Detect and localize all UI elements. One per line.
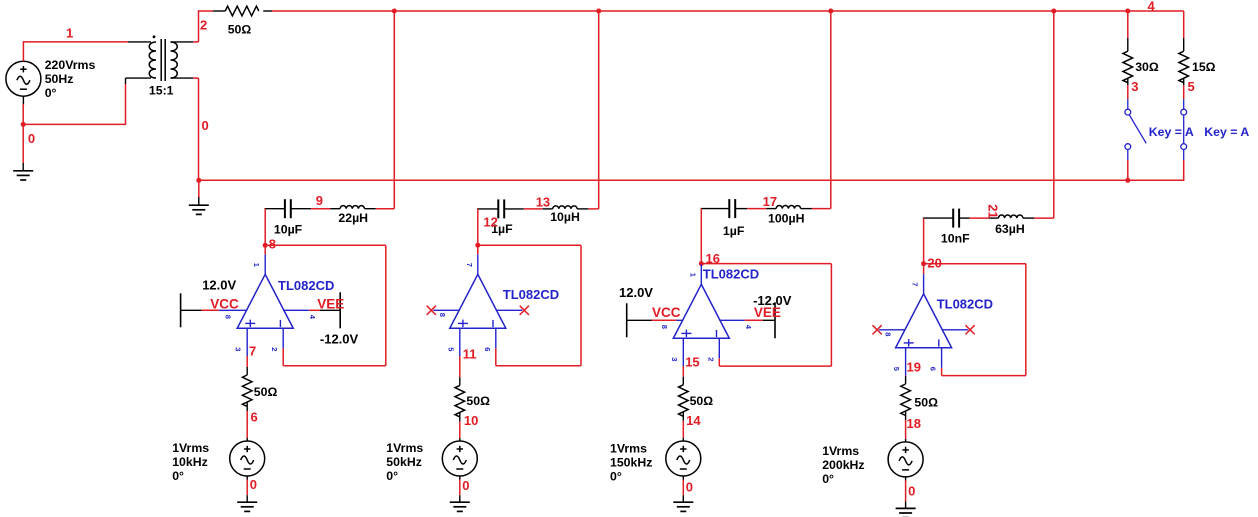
wire top to inductor branch 3: [830, 11, 832, 209]
svg-text:2: 2: [706, 357, 715, 361]
wire input pin to resistor branch 2: [459, 356, 461, 377]
pin 6 inverting input U4: [941, 348, 943, 368]
resistor R1 50Ω horizontal: [225, 6, 259, 16]
AC source 1Vrms branch 4: [888, 442, 923, 477]
power rail VCC (U1): [180, 293, 182, 327]
svg-text:0: 0: [686, 480, 693, 495]
wire ground bus: [199, 179, 1184, 181]
wire input pin to resistor branch 1: [246, 356, 248, 367]
resistor R3 15Ω vertical: [1179, 51, 1189, 82]
op-amp U3 TL082CD: [673, 284, 729, 338]
svg-text:1Vrms: 1Vrms: [610, 442, 647, 456]
junction top at branch 2: [596, 9, 601, 14]
junction top at 30Ω branch: [1125, 9, 1130, 14]
resistor 50Ω branch 1: [242, 375, 252, 407]
power pin VCC- unconnected U2: [496, 309, 523, 311]
wire cap row branch 3: [701, 208, 730, 210]
pin 7 output U2: [477, 254, 479, 274]
svg-text:8: 8: [660, 325, 669, 329]
svg-text:7: 7: [249, 344, 256, 359]
svg-text:7: 7: [911, 282, 920, 286]
inductor L4 63µH: [999, 215, 1023, 218]
svg-text:10: 10: [464, 413, 478, 428]
svg-text:0°: 0°: [610, 470, 622, 484]
capacitor C4 10nF: [952, 209, 954, 228]
resistor 50Ω branch 3: [679, 385, 689, 417]
svg-text:8: 8: [224, 315, 233, 319]
wire top to inductor branch 1: [393, 11, 395, 209]
svg-text:50Ω: 50Ω: [690, 394, 714, 408]
svg-text:0: 0: [908, 484, 915, 499]
pin 5 non-inverting input U2: [459, 328, 461, 356]
transformer T1 phase dot: [153, 35, 156, 38]
power rail VCC (U3): [626, 303, 628, 337]
svg-text:63µH: 63µH: [995, 222, 1025, 236]
junction node 0 left: [21, 122, 26, 127]
pin 7 output U4: [923, 274, 925, 294]
svg-text:0: 0: [202, 118, 209, 133]
svg-text:12: 12: [483, 214, 497, 229]
op-amp U4 TL082CD: [896, 294, 952, 348]
resistor 50Ω branch 2: [455, 385, 465, 417]
pin 3 non-inverting input U1: [246, 328, 248, 356]
pin 6 inverting input U2: [495, 328, 497, 348]
pin 3 non-inverting input U3: [682, 338, 684, 366]
svg-text:50Hz: 50Hz: [45, 72, 74, 86]
svg-text:2: 2: [270, 347, 279, 351]
switch S1 (open) Key = A: [1125, 109, 1131, 115]
AC source 1Vrms branch 1: [230, 441, 265, 476]
svg-text:5: 5: [892, 367, 901, 371]
svg-text:19: 19: [907, 360, 921, 375]
svg-text:12.0V: 12.0V: [202, 277, 236, 292]
AC source 1Vrms branch 2: [442, 441, 477, 476]
wire resistor to source branch 1: [246, 402, 248, 411]
wire source to ground branch 1: [246, 476, 248, 480]
wire resistor to source branch 2: [459, 412, 461, 421]
svg-text:50kHz: 50kHz: [386, 455, 422, 469]
wire R3 to switch S2: [1183, 78, 1185, 85]
junction bus at 30Ω branch: [1125, 178, 1130, 183]
svg-text:9: 9: [316, 193, 323, 208]
svg-text:4: 4: [744, 325, 753, 330]
svg-text:8: 8: [438, 313, 447, 317]
junction top at branch 4: [1051, 9, 1056, 14]
svg-text:220Vrms: 220Vrms: [45, 58, 96, 72]
ground (transformer): [189, 205, 209, 214]
svg-text:50Ω: 50Ω: [228, 23, 252, 37]
switch S2 (closed) Key = A: [1181, 109, 1187, 115]
wire S2 to ground bus: [1183, 150, 1185, 161]
wire cap row branch 2: [477, 208, 498, 210]
svg-text:VCC: VCC: [210, 297, 239, 312]
svg-text:15: 15: [685, 355, 699, 370]
svg-text:15Ω: 15Ω: [1192, 60, 1216, 74]
svg-text:-12.0V: -12.0V: [320, 332, 359, 347]
wire source to ground branch 2: [459, 476, 461, 480]
transformer T1 primary winding: [149, 42, 156, 78]
svg-text:10kHz: 10kHz: [172, 455, 208, 469]
svg-text:-12.0V: -12.0V: [753, 293, 792, 308]
wire resistor to source branch 4: [905, 411, 907, 420]
AC source 1Vrms branch 3: [666, 441, 701, 476]
wire cap to node 20: [923, 218, 925, 264]
pin 5 non-inverting input U4: [905, 348, 907, 376]
svg-text:6: 6: [929, 367, 938, 371]
wire input pin to resistor branch 3: [682, 366, 684, 377]
power pin VCC- unconnected U4: [942, 329, 969, 331]
junction node 16: [699, 261, 704, 266]
svg-text:200kHz: 200kHz: [822, 458, 864, 472]
wire input pin to resistor branch 4: [905, 375, 907, 378]
junction node 12: [475, 243, 480, 248]
wire secondary bottom to ground bus: [171, 77, 194, 79]
wire feedback loop op-amp 3: [701, 263, 831, 265]
pin 1 output U1: [264, 254, 266, 274]
wire feedback loop op-amp 2: [478, 244, 581, 246]
svg-text:11: 11: [463, 347, 477, 362]
wire cap to node 8: [264, 209, 266, 246]
svg-text:3: 3: [1131, 79, 1138, 94]
svg-text:12.0V: 12.0V: [619, 285, 653, 300]
ground (left source): [13, 171, 33, 180]
svg-text:50Ω: 50Ω: [914, 396, 938, 410]
svg-text:0°: 0°: [45, 86, 57, 100]
svg-text:1Vrms: 1Vrms: [822, 444, 859, 458]
svg-text:3: 3: [670, 357, 679, 361]
AC source V1 220Vrms 50Hz: [6, 61, 41, 96]
wire cap row branch 4: [923, 217, 953, 219]
svg-text:15:1: 15:1: [149, 84, 174, 98]
wire junction to ground: [198, 180, 200, 197]
svg-text:13: 13: [536, 195, 550, 210]
svg-text:5: 5: [1188, 79, 1195, 94]
svg-text:0: 0: [462, 478, 469, 493]
svg-text:1Vrms: 1Vrms: [386, 441, 423, 455]
svg-text:TL082CD: TL082CD: [937, 296, 993, 311]
wire resistor to source branch 3: [682, 412, 684, 421]
junction node 20: [921, 261, 926, 266]
svg-text:0: 0: [250, 477, 257, 492]
transformer T1 core: [160, 39, 162, 81]
wire cap to node 16: [700, 209, 702, 264]
pin 1 output U3: [700, 264, 702, 284]
svg-text:50Ω: 50Ω: [254, 385, 278, 399]
svg-text:14: 14: [686, 413, 701, 428]
ground branch 4: [896, 508, 916, 517]
svg-text:1: 1: [252, 263, 261, 267]
svg-text:TL082CD: TL082CD: [503, 287, 559, 302]
svg-text:50Ω: 50Ω: [466, 394, 490, 408]
svg-text:Key = A: Key = A: [1149, 125, 1194, 139]
svg-text:5: 5: [446, 347, 455, 351]
inductor L1 22µH: [340, 206, 364, 209]
wire junction to transformer primary bottom: [23, 123, 125, 125]
svg-text:0°: 0°: [172, 469, 184, 483]
ground branch 3: [673, 502, 693, 511]
svg-text:TL082CD: TL082CD: [278, 278, 334, 293]
svg-text:18: 18: [907, 416, 921, 431]
svg-text:17: 17: [763, 194, 777, 209]
power rail VEE (U1): [339, 292, 341, 328]
wire R2 to switch S1: [1127, 78, 1129, 85]
wire feedback loop op-amp 1: [265, 244, 386, 246]
ground branch 2: [450, 502, 470, 511]
svg-text:30Ω: 30Ω: [1135, 60, 1159, 74]
junction top at branch 1: [392, 9, 397, 14]
inductor L2 10µH: [553, 206, 577, 209]
svg-text:VCC: VCC: [652, 305, 681, 320]
svg-text:3: 3: [234, 347, 243, 351]
svg-text:22µH: 22µH: [338, 211, 368, 225]
svg-text:21: 21: [985, 204, 1000, 218]
svg-text:TL082CD: TL082CD: [703, 266, 759, 281]
svg-text:1Vrms: 1Vrms: [172, 441, 209, 455]
svg-text:100µH: 100µH: [768, 211, 805, 225]
svg-text:8: 8: [884, 332, 893, 336]
svg-text:150kHz: 150kHz: [610, 456, 652, 470]
wire feedback loop op-amp 4: [924, 263, 1026, 265]
svg-text:6: 6: [251, 410, 258, 425]
svg-text:1µF: 1µF: [723, 224, 745, 238]
wire to resistor R2 30Ω: [1127, 11, 1129, 38]
ground branch 1: [237, 502, 257, 511]
wire source to ground branch 3: [682, 476, 684, 480]
power pin VCC+ unconnected U4: [879, 329, 906, 331]
pin 2 inverting input U3: [718, 338, 720, 358]
svg-text:10µF: 10µF: [274, 223, 303, 237]
svg-text:2: 2: [200, 18, 207, 33]
svg-text:6: 6: [483, 347, 492, 351]
wire secondary top to node 2: [171, 41, 194, 43]
wire junction to ground: [22, 124, 24, 163]
svg-text:8: 8: [269, 237, 276, 252]
resistor R2 30Ω vertical: [1123, 51, 1133, 82]
junction top at branch 3: [828, 9, 833, 14]
capacitor C2 1µF: [497, 199, 499, 218]
wire V1 top to transformer primary: [22, 42, 24, 61]
wire top to inductor branch 2: [598, 11, 600, 209]
wire source to ground branch 4: [905, 477, 907, 481]
op-amp U2 TL082CD: [450, 274, 506, 328]
svg-text:7: 7: [465, 263, 474, 267]
wire top corner to resistor R3 15Ω: [1183, 11, 1185, 38]
svg-text:1: 1: [688, 273, 697, 277]
wire V1 bottom to node 0 junction: [22, 96, 24, 105]
junction bus left: [196, 178, 201, 183]
power pin VCC+ unconnected U2: [433, 309, 460, 311]
svg-text:0°: 0°: [386, 469, 398, 483]
op-amp U1 TL082CD: [237, 274, 293, 328]
svg-text:4: 4: [308, 315, 317, 320]
svg-text:Key = A: Key = A: [1204, 125, 1249, 139]
svg-text:VEE: VEE: [317, 297, 344, 312]
svg-text:1: 1: [66, 26, 73, 41]
pin 2 inverting input U1: [282, 328, 284, 348]
resistor 50Ω branch 4: [901, 384, 911, 416]
wire node 2 to resistor R1: [199, 10, 214, 12]
svg-text:0: 0: [28, 131, 35, 146]
wire cap row branch 1: [265, 208, 285, 210]
inductor L3 100µH: [776, 206, 800, 209]
wire top distribution node 4: [263, 10, 272, 12]
svg-text:10nF: 10nF: [941, 232, 970, 246]
svg-text:4: 4: [1148, 0, 1156, 14]
wire cap to node 12: [477, 209, 479, 245]
capacitor C3 1µF: [728, 199, 730, 218]
svg-text:10µH: 10µH: [550, 210, 580, 224]
junction node 8: [263, 243, 268, 248]
transformer T1 secondary winding: [171, 42, 178, 78]
svg-text:0°: 0°: [822, 472, 834, 486]
wire S1 to ground bus: [1127, 150, 1129, 161]
power rail VEE (U3): [774, 302, 776, 338]
wire top to inductor branch 4: [1053, 11, 1055, 218]
capacitor C1 10µF: [284, 199, 286, 218]
